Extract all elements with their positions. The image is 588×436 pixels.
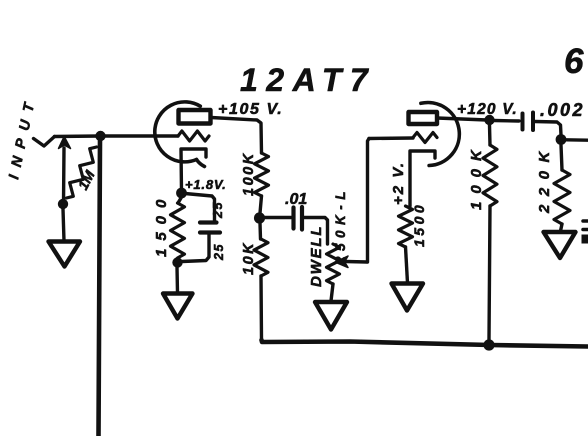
cathode V1 [181,149,206,192]
wire wiper up to grid V2 [368,139,370,263]
svg-text:DWELL: DWELL [308,225,325,287]
wire +120 node to .002 cap [494,119,519,123]
svg-text:25: 25 [211,201,225,219]
potentiometer R 1M [67,147,97,198]
svg-text:220K: 220K [536,143,553,214]
resistor 1500 (V2 cathode) [399,206,413,247]
wire .002 cap to output node [535,122,561,136]
resistor 100K (V1 plate load) [255,153,269,196]
wiper arrow of 1M pot [62,148,66,204]
resistor 100K (V2 plate load) [488,125,492,145]
input jack [34,137,55,147]
ground G2 [163,294,193,319]
wiper arrow of DWELL pot [346,260,367,264]
bypass capacitor plates [200,220,217,224]
resistor 10K [258,223,262,239]
wire heavy vertical bus [99,140,101,436]
ground G1 [49,242,81,267]
resistor 1500 (V1 cathode) [178,198,181,203]
svg-text:6: 6 [564,42,584,81]
svg-text:25: 25 [212,243,226,261]
node 1500 bottom [172,257,182,267]
node coupling junction [254,212,265,223]
svg-text:1M: 1M [75,167,98,192]
ground G4 (V2 cathode) [392,284,424,311]
resistor 220K [561,145,562,170]
bottom rail wire [262,340,588,347]
svg-text:+1.8V.: +1.8V. [185,177,227,192]
node +120 [484,115,494,125]
wire output node to right edge [566,138,588,142]
ground G3 (DWELL) [315,302,347,330]
svg-text:100K: 100K [468,142,485,210]
pot DWELL 250K-L [327,244,340,284]
node input junction [95,131,105,141]
svg-text:+2 V.: +2 V. [390,161,407,205]
svg-text:1500: 1500 [153,192,170,257]
wire node to .01 cap [264,216,291,219]
grid V1 zigzag [178,131,209,141]
node .002 output [556,134,567,145]
svg-text:1500: 1500 [411,202,427,247]
svg-text:12AT7: 12AT7 [240,62,376,98]
tube V2 envelope [421,103,459,166]
node cathode V1 [176,188,187,199]
ground G5 (220K) [544,232,576,258]
svg-text:INPUT: INPUT [6,93,40,180]
capacitor .002 [521,114,525,130]
wire .01 cap to DWELL pot [304,218,328,245]
wire input to grid V1 [55,134,179,138]
wire 1500 to ground [175,267,179,293]
svg-text:10K: 10K [241,241,257,275]
node pot bottom [58,199,68,209]
wire pot bottom to ground [63,209,64,241]
svg-text:100K: 100K [241,151,257,196]
tube V1 plate [179,110,211,124]
capacitor .01 [291,208,295,229]
svg-text:250K-L: 250K-L [333,186,348,265]
wire V2 plate to +120 node [437,118,487,120]
svg-text:.002: .002 [540,100,585,120]
bypass capacitor 25/25 wires [185,194,215,222]
cathode V2 [410,151,435,206]
svg-text:.01: .01 [285,191,307,208]
right edge cut-off marks [583,219,588,223]
node rail junction [483,339,494,350]
tube V1 envelope [155,102,201,162]
grid V2 zigzag [369,136,413,140]
svg-text:+105 V.: +105 V. [218,101,283,118]
wire V1 plate to 100K [211,118,262,154]
tube V2 plate [409,112,438,124]
